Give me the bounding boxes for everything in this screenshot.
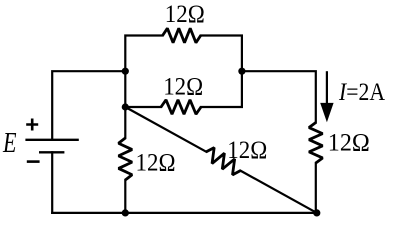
- battery E negative plate: [39, 151, 64, 153]
- node junction bottom-right: [313, 209, 320, 216]
- wire left resistor bottom to bottom rail: [124, 180, 126, 213]
- resistor 12Ω right vertical: [309, 123, 323, 164]
- current arrow I: [320, 71, 333, 122]
- node junction top-left: [122, 68, 129, 75]
- svg-text:12Ω: 12Ω: [165, 1, 205, 28]
- resistor 12Ω middle branch: [161, 100, 201, 114]
- wire left rail lower: [51, 152, 53, 213]
- label 12Ω middle: [163, 74, 203, 101]
- wire diagonal upper segment: [125, 107, 206, 152]
- label I=2A: [338, 79, 385, 106]
- label 12Ω left: [136, 149, 176, 176]
- label 12Ω diagonal: [227, 137, 267, 164]
- node junction top-right: [238, 68, 245, 75]
- wire top branch right: [201, 36, 242, 72]
- label E source: [2, 128, 16, 159]
- wire bottom rail: [52, 212, 317, 214]
- label 12Ω top: [165, 1, 205, 28]
- battery minus sign: [27, 160, 40, 163]
- battery plus sign: [26, 119, 38, 131]
- label 12Ω right: [328, 130, 370, 157]
- resistor 12Ω left vertical: [119, 138, 133, 180]
- wire middle branch right to node B: [201, 71, 242, 107]
- resistor 12Ω top branch: [163, 28, 201, 42]
- svg-text:12Ω: 12Ω: [136, 149, 176, 176]
- svg-text:12Ω: 12Ω: [163, 74, 203, 101]
- node junction bottom-left: [122, 209, 129, 216]
- wire right rail lower: [315, 163, 317, 213]
- wire middle branch left: [125, 106, 161, 108]
- svg-text:12Ω: 12Ω: [328, 130, 370, 157]
- wire node A to node A2: [124, 71, 126, 107]
- svg-text:12Ω: 12Ω: [227, 137, 267, 164]
- wire node B to right rail top: [242, 71, 316, 122]
- wire top branch left: [125, 36, 162, 72]
- svg-text:I=2A: I=2A: [338, 79, 385, 106]
- wire left rail upper and top rail to node A: [52, 71, 125, 139]
- resistor 12Ω diagonal: [206, 148, 240, 175]
- wire diagonal lower segment: [240, 171, 316, 213]
- battery E positive plate: [25, 139, 78, 141]
- svg-text:E: E: [2, 128, 16, 159]
- wire node A2 to left resistor top: [124, 107, 126, 138]
- node junction middle: [122, 103, 129, 110]
